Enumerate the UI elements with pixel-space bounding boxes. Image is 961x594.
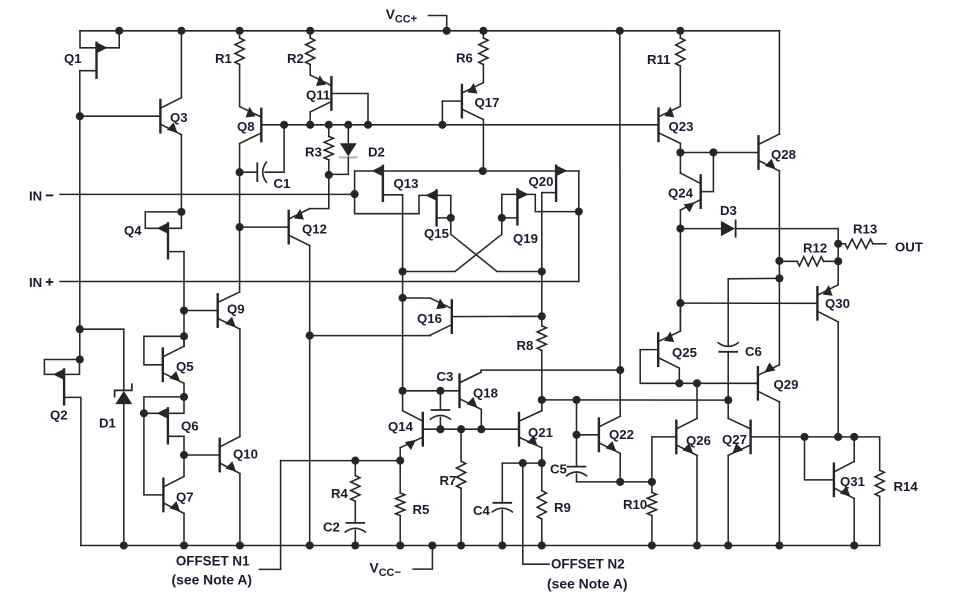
svg-text:OUT: OUT xyxy=(895,240,923,255)
node Q31 base tap xyxy=(800,433,808,441)
transistor Q5 xyxy=(163,346,184,383)
svg-text:C2: C2 xyxy=(323,520,340,535)
svg-text:OFFSET N1: OFFSET N1 xyxy=(176,554,250,569)
transistor Q30 xyxy=(817,285,838,322)
node R9 rail xyxy=(538,541,546,549)
wire Q12 base xyxy=(240,226,289,228)
node C3 bottom xyxy=(436,425,444,433)
node Q5 collector xyxy=(180,332,188,340)
wire C1 left lead xyxy=(240,171,257,173)
wire Q22 base lead xyxy=(577,434,599,436)
node X left xyxy=(399,267,407,275)
svg-text:Q26: Q26 xyxy=(686,433,711,448)
wire C1 right lead xyxy=(265,125,284,172)
wire Q3 emitter riser xyxy=(180,135,182,212)
wire Q16 base lead xyxy=(452,315,542,317)
wire R11 to Q23 xyxy=(679,66,681,106)
transistor Q2 xyxy=(53,369,64,404)
node Q19 drain xyxy=(498,214,506,222)
wire bottom rail VCC- xyxy=(81,545,880,547)
node Q12 base xyxy=(236,223,244,231)
wire R5 top lead xyxy=(399,461,401,493)
node R6 rail xyxy=(479,27,487,35)
diode D3 xyxy=(680,221,838,237)
wire Q24 base lead xyxy=(701,152,714,191)
svg-text:Q24: Q24 xyxy=(668,186,694,201)
wire Q11 base lead xyxy=(331,94,368,125)
wire Q5 collector riser xyxy=(183,336,185,346)
wire Q2 gate loop xyxy=(44,360,79,375)
node Q17 base bus xyxy=(438,121,446,129)
node Q30 collector join xyxy=(834,433,842,441)
wire Q18 collector line xyxy=(460,370,621,383)
wire Q9 emitter column xyxy=(239,329,241,437)
wire Q20 source column R8 xyxy=(541,193,543,326)
wire Q6 gate loop xyxy=(144,397,184,413)
wire R6 top lead xyxy=(482,31,484,38)
wire IN- line xyxy=(60,193,355,195)
wire Q28 emitter column xyxy=(778,171,780,365)
wire Q31 base elbow xyxy=(805,437,834,480)
wire Q26 base lead xyxy=(652,436,676,438)
wire IN- to Q15 gate xyxy=(355,194,451,218)
wire cross left to Q19 xyxy=(403,218,502,272)
resistor R4 xyxy=(351,476,360,502)
transistor Q27 xyxy=(728,418,750,455)
wire C4 bottom lead xyxy=(501,510,503,545)
node Q9 base xyxy=(180,306,188,314)
capacitor C2 xyxy=(345,523,366,533)
node R12 left xyxy=(775,257,783,265)
transistor Q9 xyxy=(218,292,240,329)
svg-text:Q19: Q19 xyxy=(513,231,538,246)
svg-text:Q15: Q15 xyxy=(424,226,449,241)
node R10 rail xyxy=(648,541,656,549)
wire R11 top lead xyxy=(679,31,681,38)
wire R13 to OUT xyxy=(873,243,886,245)
svg-text:Q9: Q9 xyxy=(227,302,245,317)
svg-text:Q14: Q14 xyxy=(388,419,414,434)
wire C4 top lead xyxy=(501,463,503,503)
wire Q30 collector column xyxy=(837,322,839,437)
capacitor C3 xyxy=(430,410,451,420)
node Q14 collector xyxy=(399,387,407,395)
wire Q3 collector riser xyxy=(180,31,182,98)
transistor Q24 xyxy=(680,173,700,212)
wire Q30 base line xyxy=(680,302,817,304)
transistor Q16 xyxy=(430,298,451,335)
wire Q16 collector lead xyxy=(310,334,431,337)
wire C3 top lead xyxy=(439,391,441,410)
node R5 top xyxy=(396,457,404,465)
label IN- minus sign xyxy=(46,194,53,196)
node VCC+ tap xyxy=(443,27,451,35)
node D2 bus xyxy=(344,121,352,129)
node Q27 emitter rail xyxy=(724,541,732,549)
node Q6 gate left xyxy=(140,409,148,417)
transistor Q18 xyxy=(460,372,482,409)
svg-text:R12: R12 xyxy=(803,241,827,256)
node R13 tap xyxy=(834,240,842,248)
wire Q24 collector riser xyxy=(679,153,681,174)
svg-text:R2: R2 xyxy=(287,51,304,66)
node C5 tap xyxy=(572,396,580,404)
wire R4 to C2 xyxy=(354,501,356,523)
node R1 rail xyxy=(236,27,244,35)
node R2 rail xyxy=(306,27,314,35)
node Q26 collector tap xyxy=(693,379,701,387)
svg-text:IN: IN xyxy=(29,275,42,290)
resistor R1 xyxy=(235,38,244,65)
node C1 bus xyxy=(280,121,288,129)
wire R3 bottom lead xyxy=(328,160,330,175)
svg-text:Q17: Q17 xyxy=(475,95,500,110)
node Q16 emitter xyxy=(399,294,407,302)
wire Q5 emitter riser xyxy=(183,383,185,397)
transistor Q1 xyxy=(97,43,108,78)
svg-text:C1: C1 xyxy=(274,176,291,191)
svg-text:D1: D1 xyxy=(99,416,116,431)
svg-text:C6: C6 xyxy=(745,344,762,359)
wire Q12 emitter path xyxy=(310,175,329,209)
svg-text:R6: R6 xyxy=(456,51,473,66)
wire R14 bottom xyxy=(879,496,881,545)
svg-text:R5: R5 xyxy=(413,502,430,517)
svg-text:Q8: Q8 xyxy=(237,119,255,134)
node Q22 emitter join xyxy=(616,478,624,486)
svg-text:C3: C3 xyxy=(437,369,454,384)
wire Q28 base line xyxy=(680,152,758,154)
wire C5 riser xyxy=(576,400,578,467)
wire Q17 collector riser xyxy=(482,120,484,171)
resistor R5 xyxy=(396,493,405,516)
wire Q12 collector column xyxy=(309,246,311,546)
node Q26 emitter rail xyxy=(693,541,701,549)
node Q22 column rail xyxy=(616,27,624,35)
capacitor C4 xyxy=(492,503,513,513)
wire Q23 collector riser xyxy=(679,143,681,152)
wire Q26 collector riser xyxy=(696,383,698,418)
node Q20 drain gate xyxy=(575,208,583,216)
node Q15 drain xyxy=(447,214,455,222)
node Q17 collector gate line xyxy=(479,167,487,175)
wire input gate line Q13 Q20 xyxy=(355,171,579,194)
transistor Q17 xyxy=(462,83,484,120)
wire Q25 collector riser xyxy=(678,368,680,383)
svg-text:(see Note A): (see Note A) xyxy=(172,572,253,588)
node R11 rail xyxy=(676,27,684,35)
wire Q14 emitter riser xyxy=(399,448,401,461)
wire R6 to Q17 xyxy=(482,65,484,83)
node R7 rail xyxy=(457,541,465,549)
wire Q16 emitter lead xyxy=(403,297,431,299)
node Q12 column rail xyxy=(306,541,314,549)
node R8 bottom xyxy=(538,396,546,404)
node Q31 collector join xyxy=(850,433,858,441)
node Q16 base tap xyxy=(306,332,314,340)
node Q6 gate node xyxy=(180,393,188,401)
transistor Q15 xyxy=(425,190,436,225)
wire R3 top lead xyxy=(328,125,330,137)
wire Q7 emitter riser xyxy=(183,513,185,545)
svg-text:R9: R9 xyxy=(554,500,571,515)
node D3 anode xyxy=(676,225,684,233)
wire mirror line xyxy=(542,399,728,401)
wire Q4 column xyxy=(183,252,185,347)
node C3 top xyxy=(436,387,444,395)
wire IN+ riser xyxy=(578,212,580,282)
node Q23 collector xyxy=(676,148,684,156)
diode D2 xyxy=(329,125,357,175)
svg-text:Q6: Q6 xyxy=(181,419,199,434)
svg-text:Q4: Q4 xyxy=(124,223,142,238)
wire R7 top lead xyxy=(460,429,462,461)
resistor R10 xyxy=(647,493,656,516)
resistor R14 xyxy=(875,470,884,496)
node VCC- tap xyxy=(428,541,436,549)
node Q22 base tap xyxy=(572,431,580,439)
wire Q4 gate loop xyxy=(145,212,181,228)
transistor Q3 xyxy=(160,98,181,135)
svg-text:R14: R14 xyxy=(894,479,919,494)
transistor Q12 xyxy=(289,209,310,246)
wire C6 top link xyxy=(728,277,779,279)
wire Q31 collector riser xyxy=(853,437,855,462)
node Q1 gate rail xyxy=(115,27,123,35)
wire Q22 emitter riser xyxy=(619,453,621,482)
wire R4 top lead xyxy=(354,461,356,476)
wire Q20 gate riser xyxy=(578,171,580,212)
wire Q7 base column xyxy=(144,413,164,495)
svg-text:R11: R11 xyxy=(647,52,670,67)
wire Q1 source lead xyxy=(80,70,97,72)
wire Q15 drain lead xyxy=(437,217,451,219)
node X right xyxy=(538,267,546,275)
svg-text:Q10: Q10 xyxy=(233,447,258,462)
wire cross right to Q15 xyxy=(451,218,542,272)
capacitor C5 xyxy=(566,467,587,477)
node Q10 base xyxy=(180,451,188,459)
node Q2 gate node xyxy=(76,355,84,363)
diode D1 xyxy=(115,384,133,545)
wire R12 left lead xyxy=(779,260,797,262)
transistor Q25 xyxy=(658,331,680,368)
wire C4 row xyxy=(502,462,542,464)
transistor Q22 xyxy=(599,416,620,453)
capacitor C6 xyxy=(718,342,739,352)
transistor Q19 xyxy=(517,189,528,224)
transistor Q13 xyxy=(372,166,383,201)
node R12 right xyxy=(834,257,842,265)
wire Q1 gate line xyxy=(80,31,119,48)
wire VCC+ lead xyxy=(429,16,447,31)
svg-text:IN: IN xyxy=(29,188,42,203)
svg-text:Q11: Q11 xyxy=(306,88,330,103)
transistor Q28 xyxy=(759,134,780,171)
resistor R12 xyxy=(797,257,823,266)
node Q29 collector rail xyxy=(775,541,783,549)
svg-text:Q3: Q3 xyxy=(170,110,188,125)
node C4 rail xyxy=(498,541,506,549)
transistor Q26 xyxy=(676,418,697,455)
wire R12 right lead xyxy=(824,260,839,262)
transistor Q11 xyxy=(310,75,331,112)
wire Q30 emitter riser xyxy=(837,261,839,285)
transistor Q31 xyxy=(834,461,854,498)
node IN- junction xyxy=(351,190,359,198)
wire offset N2 lead xyxy=(523,463,549,564)
resistor R8 xyxy=(537,326,546,351)
node R3 D2 junction xyxy=(325,171,333,179)
svg-text:Q13: Q13 xyxy=(394,176,419,191)
transistor Q10 xyxy=(220,437,240,474)
wire R2 top lead xyxy=(309,31,311,38)
wire Q25 base lead xyxy=(640,349,658,351)
wire Q2 source lead xyxy=(64,397,81,545)
transistor Q6 xyxy=(157,408,168,443)
wire Q19 gate lead xyxy=(502,194,579,218)
transistor Q8 xyxy=(240,107,262,144)
wire Q24 emitter riser xyxy=(679,210,681,229)
node R3 bus xyxy=(325,121,333,129)
svg-text:R10: R10 xyxy=(623,497,647,512)
node Q11 collector bus xyxy=(306,121,314,129)
node R5 rail xyxy=(396,541,404,549)
wire C3 bottom lead xyxy=(439,418,441,430)
node Q24 base tap xyxy=(709,148,717,156)
node Q16 base R8 xyxy=(538,312,546,320)
svg-text:OFFSET N2: OFFSET N2 xyxy=(551,557,625,572)
wire Q8 collector column xyxy=(239,144,241,292)
wire C2 bottom lead xyxy=(354,530,356,545)
wire Q13 drain column xyxy=(402,195,404,391)
transistor Q20 xyxy=(556,166,567,201)
node offset N2 tap xyxy=(519,459,527,467)
wire R10 bottom lead xyxy=(651,516,653,546)
wire Q22 collector column xyxy=(619,31,621,416)
node Q25 collector xyxy=(675,379,683,387)
svg-text:(see Note A): (see Note A) xyxy=(547,576,628,592)
svg-text:Q16: Q16 xyxy=(417,311,442,326)
svg-text:Q29: Q29 xyxy=(774,377,799,392)
node Q7 emitter rail xyxy=(180,541,188,549)
svg-text:R13: R13 xyxy=(853,222,877,237)
wire R9 bottom lead xyxy=(541,519,543,546)
wire R2 to Q11 emitter xyxy=(309,65,311,76)
wire Q11 collector riser xyxy=(309,112,311,125)
wire R13 left lead xyxy=(838,243,845,245)
node Q10 emitter rail xyxy=(236,541,244,549)
wire VCC- lead xyxy=(413,546,432,570)
wire IN+ line xyxy=(60,281,579,283)
wire Q23 column lower xyxy=(679,229,681,331)
wire Q18 emitter riser xyxy=(480,409,482,429)
svg-text:Q22: Q22 xyxy=(609,427,634,442)
transistor Q14 xyxy=(400,411,423,450)
svg-text:Q23: Q23 xyxy=(669,119,694,134)
wire R8 bottom xyxy=(541,350,543,410)
svg-text:Q31: Q31 xyxy=(840,474,865,489)
svg-text:C4: C4 xyxy=(473,503,491,518)
svg-text:Q28: Q28 xyxy=(771,147,796,162)
node R7 top xyxy=(457,425,465,433)
wire R7 bottom lead xyxy=(460,488,462,545)
wire R13 R12 link xyxy=(837,244,839,261)
node R10 top xyxy=(648,478,656,486)
node R4 top xyxy=(351,457,359,465)
wire Q18 base line xyxy=(403,390,460,392)
svg-text:R7: R7 xyxy=(440,473,457,488)
label IN+ plus sign xyxy=(46,278,53,285)
wire Q17 base lead xyxy=(442,100,462,102)
wire Q10 emitter riser xyxy=(239,474,241,546)
wire C5 bottom lead xyxy=(577,474,652,482)
resistor R9 xyxy=(537,491,546,519)
svg-text:Q1: Q1 xyxy=(64,51,82,66)
wire Q14 collector riser xyxy=(402,391,404,411)
wire Q25 emitter riser xyxy=(679,303,681,331)
wire Q17 base riser xyxy=(441,101,443,125)
wire Q13 drain lead xyxy=(383,194,403,196)
transistor Q23 xyxy=(659,106,681,143)
node Q4 top xyxy=(177,208,185,216)
svg-text:D2: D2 xyxy=(368,145,385,160)
wire Q10 base lead xyxy=(184,454,220,456)
wire Q31 emitter riser xyxy=(853,498,855,545)
svg-text:Q7: Q7 xyxy=(176,490,194,505)
wire D3 to R13 corner xyxy=(837,229,839,244)
svg-text:Q27: Q27 xyxy=(722,432,747,447)
wire Q5 base elbow xyxy=(144,336,184,365)
svg-text:Q18: Q18 xyxy=(473,386,498,401)
wire R9 top lead xyxy=(541,463,543,491)
wire Q26 emitter riser xyxy=(696,455,698,545)
wire Q9 base lead xyxy=(184,310,218,312)
svg-text:R8: R8 xyxy=(517,338,534,353)
wire Q28 collector riser xyxy=(778,31,780,134)
node Q30 base tap xyxy=(676,299,684,307)
resistor R7 xyxy=(457,461,466,488)
wire Q3 base xyxy=(80,115,161,117)
wire C6 upper lead xyxy=(727,279,729,346)
wire Q7 collector riser xyxy=(183,455,185,476)
wire R5 bottom lead xyxy=(399,516,401,546)
node D1 tap xyxy=(76,325,84,333)
svg-text:C5: C5 xyxy=(550,462,567,477)
svg-text:R1: R1 xyxy=(215,51,232,66)
wire D1 branch xyxy=(80,329,124,390)
svg-text:Q5: Q5 xyxy=(176,359,194,374)
node Q18 collector join xyxy=(616,366,624,374)
svg-text:R3: R3 xyxy=(305,145,322,160)
wire Q20 source lead xyxy=(542,192,556,194)
wire base bus xyxy=(261,124,658,126)
svg-text:Q2: Q2 xyxy=(50,408,68,423)
wire R1 to Q8 emitter xyxy=(239,65,241,107)
node Q27 collector xyxy=(724,396,732,404)
svg-text:Q25: Q25 xyxy=(672,345,697,360)
wire offset N1 row xyxy=(281,460,401,462)
wire Q25 base elbow xyxy=(640,350,758,384)
wire C6 lower lead xyxy=(727,352,729,400)
wire top rail VCC+ xyxy=(80,30,779,32)
wire Q27 collector riser xyxy=(727,400,729,418)
node Q18 emitter join xyxy=(477,425,485,433)
node R4 rail xyxy=(351,541,359,549)
node Q11 base bus xyxy=(364,121,372,129)
wire Q4 source lead xyxy=(168,251,184,253)
resistor R11 xyxy=(676,38,685,66)
